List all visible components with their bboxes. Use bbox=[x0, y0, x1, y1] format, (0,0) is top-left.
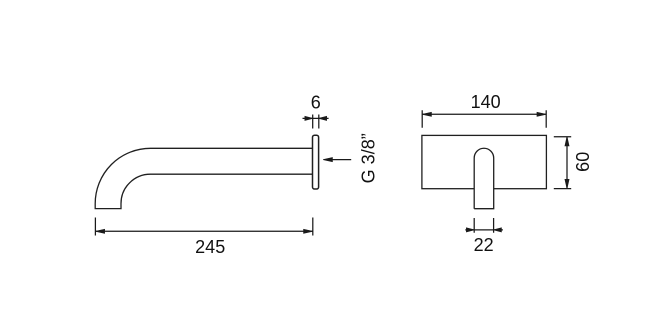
spout front-view (tube with dome top) bbox=[474, 148, 494, 208]
dimension 6: extension lines bbox=[303, 115, 329, 129]
dimension 60: extension lines bbox=[554, 137, 571, 189]
dimension 22: arrowheads bbox=[466, 228, 501, 232]
dimension 140: arrowheads bbox=[422, 112, 546, 116]
dimension 60: dimension line bbox=[566, 137, 568, 189]
wall plate front-view rectangle bbox=[422, 135, 547, 188]
svg-text:6: 6 bbox=[311, 92, 321, 112]
dimension 6: leader lines bbox=[303, 117, 329, 119]
svg-text:22: 22 bbox=[474, 235, 494, 255]
svg-text:245: 245 bbox=[195, 237, 225, 257]
dimension 140: dimension line bbox=[422, 113, 546, 115]
svg-text:G 3/8”: G 3/8” bbox=[358, 133, 378, 183]
dimension 22: extension lines bbox=[465, 218, 503, 233]
G 3/8 leader arrow bbox=[323, 158, 351, 162]
dimension 245: arrowheads bbox=[95, 229, 312, 233]
dimension 6: arrowheads bbox=[305, 116, 327, 120]
dimension 245: dimension line bbox=[95, 230, 312, 232]
dimension 140: extension lines bbox=[422, 110, 546, 128]
wall plate side-view bbox=[313, 135, 319, 189]
dimension 22: leader lines bbox=[465, 229, 503, 231]
svg-text:140: 140 bbox=[471, 92, 501, 112]
dimension 245: extension lines bbox=[95, 218, 312, 236]
spout side-view outline bbox=[95, 148, 312, 208]
dimension 60: arrowheads bbox=[565, 137, 569, 189]
svg-text:60: 60 bbox=[573, 152, 593, 172]
